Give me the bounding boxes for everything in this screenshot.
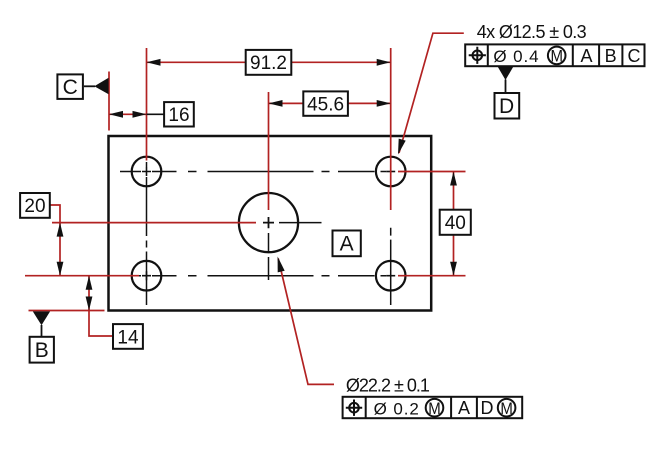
extension line bottom row right (red)	[398, 275, 466, 277]
centerline top row	[120, 171, 386, 173]
svg-text:C: C	[628, 46, 641, 66]
datum A label	[333, 231, 361, 257]
dimension 14	[86, 276, 143, 349]
centerline middle row right segment	[279, 222, 322, 224]
extension line plate bottom left / datum B (red)	[29, 310, 105, 312]
svg-text:M: M	[550, 47, 563, 66]
svg-text:D: D	[481, 398, 494, 418]
svg-text:B: B	[35, 339, 49, 362]
datum D	[495, 66, 520, 118]
hole H3 bottom-left	[132, 261, 162, 291]
svg-text:M: M	[428, 399, 441, 418]
extension line middle row left (red)	[52, 222, 256, 224]
svg-text:91.2: 91.2	[250, 53, 287, 74]
svg-text:C: C	[63, 76, 78, 99]
dimension 40	[440, 172, 471, 276]
svg-text:14: 14	[117, 327, 139, 348]
svg-text:A: A	[458, 398, 470, 418]
svg-text:40: 40	[445, 213, 466, 234]
datum C	[57, 74, 108, 99]
svg-text:Ø 0.2: Ø 0.2	[374, 399, 420, 418]
centerline column left	[146, 162, 148, 305]
centerline bottom row	[120, 275, 386, 277]
extension line center column (red)	[268, 92, 270, 210]
feature control frame top	[465, 44, 644, 66]
extension line bottom row left (red)	[25, 275, 139, 277]
leader 4x holes	[398, 33, 464, 154]
plate outline	[109, 136, 432, 311]
extension line col1 (red)	[146, 48, 148, 161]
leader center hole	[278, 257, 334, 385]
feature control frame bottom	[343, 397, 523, 419]
extension line top row right (red)	[398, 171, 466, 173]
extension line datum C (red)	[108, 72, 110, 131]
svg-text:A: A	[340, 233, 354, 256]
dimension 16	[109, 102, 194, 126]
centerline column right	[390, 228, 392, 305]
dimension 45.6	[269, 91, 391, 115]
dimension 20	[20, 193, 63, 276]
svg-text:16: 16	[168, 105, 189, 126]
svg-text:M: M	[500, 399, 513, 418]
svg-text:45.6: 45.6	[307, 94, 344, 115]
svg-text:B: B	[605, 46, 617, 66]
dimension 91.2	[147, 50, 391, 75]
centerline column middle	[268, 233, 270, 280]
svg-text:Ø 0.4: Ø 0.4	[493, 47, 539, 66]
hole H4 bottom-right	[376, 261, 406, 291]
hole H2 top-right	[376, 157, 406, 187]
svg-text:20: 20	[24, 196, 45, 217]
datum B	[30, 311, 54, 362]
svg-text:Ø22.2 ± 0.1: Ø22.2 ± 0.1	[346, 375, 430, 395]
extension line col2 (red)	[390, 48, 392, 210]
svg-text:A: A	[580, 46, 592, 66]
svg-text:4x Ø12.5 ± 0.3: 4x Ø12.5 ± 0.3	[477, 22, 587, 42]
hole H1 top-left	[132, 157, 162, 187]
svg-text:D: D	[499, 95, 514, 118]
center hole	[239, 193, 298, 252]
